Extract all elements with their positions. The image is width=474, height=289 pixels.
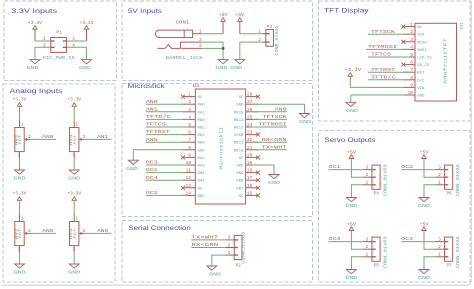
ground (P1 right) [79, 60, 92, 72]
wire +3.3V to RV1 pin1 [19, 106, 21, 120]
connector P3 CONN_01X02 [258, 24, 280, 55]
net label OC1 (Microstick pin11) [146, 167, 188, 173]
ground (P2) [207, 266, 221, 278]
net label TFTCS (Microstick pin5) [146, 122, 188, 128]
ground (jack) [215, 60, 228, 72]
svg-text:RA1: RA1 [198, 111, 206, 115]
svg-text:PIC_PWR_IN: PIC_PWR_IN [43, 55, 75, 61]
svg-text:GND: GND [299, 119, 311, 125]
svg-text:GND: GND [346, 108, 358, 114]
svg-text:20: 20 [247, 152, 253, 158]
svg-text:P4: P4 [374, 192, 380, 196]
ground (RV4) [68, 264, 80, 276]
power +5V (P3) [235, 12, 244, 34]
svg-text:NC: NC [239, 195, 244, 199]
net label AN0 (Microstick pin2) [146, 99, 188, 105]
section frame Analog Inputs box [3, 84, 115, 282]
svg-text:1: 1 [366, 252, 369, 258]
IC U1 AdafruitTFT [403, 22, 463, 101]
svg-text:1: 1 [21, 216, 24, 222]
svg-text:CONN_01X03: CONN_01X03 [456, 236, 461, 268]
svg-text:GND: GND [209, 272, 221, 278]
net label TFTD/C (Microstick pin4) [146, 114, 188, 120]
net label TFTSCK (Microstick pin25) [252, 114, 287, 120]
junction jack GND [222, 47, 225, 50]
svg-text:4: 4 [410, 44, 413, 50]
wire TFT GND [351, 95, 404, 102]
svg-text:BL: BL [417, 26, 422, 30]
wire P3 pin2 to GND [240, 42, 262, 60]
svg-text:27: 27 [247, 99, 253, 105]
svg-text:RB2: RB2 [198, 134, 206, 138]
svg-text:GND: GND [268, 180, 280, 186]
ground (P7) [418, 270, 430, 282]
ground (Microstick pin19) [268, 175, 280, 187]
wire P1 pin1 to +3.3V [35, 40, 51, 42]
svg-text:LCD_CS: LCD_CS [417, 57, 432, 61]
wire +5V to P5 pin2 [351, 231, 363, 249]
svg-text:RB5: RB5 [198, 195, 206, 199]
connector CON1 BARREL_JACK [155, 20, 203, 61]
svg-text:+3.3V: +3.3V [344, 67, 361, 73]
net label AN5 (RV2 wiper) [30, 228, 57, 234]
no-connect Microstick pin1 [181, 95, 185, 99]
wire jack pin1 to +5V [202, 33, 224, 35]
svg-text:VUSB: VUSB [234, 134, 244, 138]
svg-text:RA0: RA0 [198, 104, 206, 108]
svg-text:9: 9 [188, 152, 191, 158]
svg-text:Serial Connection: Serial Connection [128, 225, 191, 232]
wire RV1 pin3 to GND [19, 159, 21, 170]
svg-text:GND: GND [418, 275, 430, 281]
no-connect Microstick pin16 [256, 186, 260, 190]
net label OC3 (P5 pin3) [329, 236, 363, 242]
svg-text:2: 2 [438, 172, 441, 178]
svg-text:NC: NC [239, 157, 244, 161]
wire jack pin2 to GND rail [202, 47, 224, 49]
svg-text:GND: GND [27, 65, 39, 71]
svg-text:CONN_01X03: CONN_01X03 [384, 164, 389, 196]
power +5V (P4) [347, 149, 356, 158]
svg-text:RB3: RB3 [198, 142, 206, 146]
svg-text:9: 9 [410, 82, 413, 88]
svg-text:2: 2 [366, 172, 369, 178]
svg-text:1: 1 [410, 22, 413, 28]
svg-text:RA2: RA2 [198, 157, 206, 161]
svg-text:GND: GND [230, 65, 242, 71]
power +5V (P5) [347, 221, 356, 230]
svg-text:GND: GND [126, 166, 138, 172]
svg-text:RB1: RB1 [198, 127, 206, 131]
section frame Serial Connection box [122, 221, 313, 283]
wire RV3 pin3 to GND [73, 159, 75, 170]
power +3.3V (P1 left) [28, 20, 42, 41]
svg-text:5V Inputs: 5V Inputs [128, 8, 163, 15]
svg-text:1: 1 [438, 252, 441, 258]
net label TX>WHT (P2 pin3) [191, 235, 224, 241]
svg-text:28: 28 [247, 92, 253, 98]
svg-text:3: 3 [366, 164, 369, 170]
section frame TFT Display box [319, 1, 471, 121]
svg-text:NC: NC [239, 96, 244, 100]
potentiometer RV3 [70, 120, 86, 159]
svg-text:RA4: RA4 [198, 180, 206, 184]
no-connect Microstick pin20 [256, 155, 260, 159]
svg-text:7: 7 [410, 67, 413, 73]
svg-text:3: 3 [438, 236, 441, 242]
svg-text:1: 1 [258, 29, 261, 35]
svg-text:CONN_01X03: CONN_01X03 [456, 164, 461, 196]
wire RV2 pin3 to GND [19, 253, 21, 264]
svg-text:MOSI: MOSI [417, 49, 427, 53]
svg-text:U1: U1 [193, 83, 200, 89]
no-connect TFT pin6 SD_CS [401, 63, 405, 67]
svg-text:1: 1 [228, 250, 231, 256]
svg-text:18: 18 [247, 168, 253, 174]
section frame 3.3V Inputs box [4, 1, 117, 81]
svg-text:1: 1 [75, 216, 78, 222]
wire P1 pin2 to +3.3V [67, 40, 87, 42]
svg-text:CONN_01X03: CONN_01X03 [241, 231, 246, 263]
ground (P3) [230, 60, 245, 72]
power +5V (P7) [420, 221, 429, 230]
svg-text:GND: GND [236, 104, 244, 108]
ground (Microstick pin27) [299, 114, 311, 126]
svg-text:3: 3 [72, 247, 75, 253]
svg-text:GND: GND [79, 65, 91, 71]
svg-text:RST: RST [417, 72, 425, 76]
svg-text:5: 5 [188, 122, 191, 128]
svg-text:CONN_01X02: CONN_01X02 [275, 25, 280, 55]
wire P1 pin4 to GND [67, 47, 87, 59]
svg-text:POT: POT [19, 134, 23, 144]
ground (P5) [345, 270, 357, 282]
wire jack pin3 to GND rail [202, 42, 224, 60]
no-connect Microstick pin23 [256, 133, 260, 137]
net label TFTCS (TFT pin5) [368, 52, 409, 58]
svg-text:+3.3V: +3.3V [67, 191, 81, 197]
svg-text:RB9: RB9 [236, 172, 244, 176]
svg-text:10: 10 [407, 90, 413, 96]
svg-text:25: 25 [247, 114, 253, 120]
wire TFT VIN to +3.3V [350, 77, 403, 88]
section frame Microstick box [122, 83, 313, 217]
svg-text:2: 2 [258, 37, 261, 43]
wire +3.3V to RV3 pin1 [73, 106, 75, 120]
wire P5 pin1 to GND [351, 257, 363, 270]
svg-text:GND: GND [345, 275, 357, 281]
potentiometer RV2 [15, 214, 31, 253]
wire +5V to P6 pin2 [424, 159, 436, 177]
wire +5V to P7 pin2 [424, 231, 436, 249]
svg-text:6: 6 [188, 130, 191, 136]
svg-text:GND: GND [215, 65, 227, 71]
svg-text:AdafruitTFT: AdafruitTFT [444, 37, 449, 84]
net label OC4 (P7 pin3) [401, 236, 435, 242]
svg-text:2: 2 [410, 29, 413, 35]
svg-text:POT: POT [74, 228, 78, 238]
svg-text:MISO: MISO [417, 41, 427, 45]
wire P1 pin3 to GND [35, 47, 51, 59]
connector P4 CONN_01X03 [363, 164, 389, 196]
svg-text:3: 3 [18, 247, 21, 253]
svg-text:NC: NC [198, 96, 203, 100]
power +3.3V (RV1) [13, 97, 27, 107]
svg-text:3: 3 [228, 235, 231, 241]
svg-text:1: 1 [366, 180, 369, 186]
net label OC2 (P6 pin3) [401, 164, 435, 170]
no-connect TFT pin1 BL [401, 25, 405, 29]
net label RX<GRN (Microstick pin22) [252, 137, 287, 143]
svg-text:26: 26 [247, 107, 253, 113]
svg-text:GND: GND [236, 165, 244, 169]
svg-text:RB11: RB11 [234, 142, 244, 146]
IC U1 MicrostickII [183, 83, 258, 204]
no-connect Microstick pin9 [181, 155, 185, 159]
svg-text:GND: GND [345, 203, 357, 209]
svg-text:5: 5 [410, 52, 413, 58]
svg-text:RB7: RB7 [236, 187, 244, 191]
connector P5 CONN_01X03 [363, 236, 389, 268]
net label AN9 (RV4 wiper) [84, 228, 111, 234]
svg-text:1: 1 [188, 92, 191, 98]
svg-text:SD_CS: SD_CS [417, 64, 430, 68]
svg-text:19: 19 [247, 160, 253, 166]
svg-text:GND: GND [418, 203, 430, 209]
svg-text:P1: P1 [56, 30, 62, 36]
net label AN1 (Microstick pin3) [146, 106, 188, 112]
svg-text:8: 8 [188, 145, 191, 151]
power +5V (jack) [219, 12, 228, 34]
svg-text:RB14: RB14 [234, 119, 244, 123]
no-connect Microstick pin13 [181, 186, 185, 190]
svg-text:RB10: RB10 [234, 149, 244, 153]
svg-text:SCK: SCK [417, 34, 425, 38]
svg-text:6: 6 [410, 60, 413, 66]
svg-text:15: 15 [247, 190, 253, 196]
net label AN0 (RV1 wiper) [30, 134, 57, 140]
power +5V (P6) [420, 149, 429, 158]
net label TFTMOSI (TFT pin4) [366, 44, 409, 50]
potentiometer RV1 [15, 120, 31, 159]
net label TFTRST (Microstick pin6) [146, 129, 188, 135]
svg-text:P6: P6 [447, 192, 453, 196]
net label TFTMOSI (Microstick pin24) [252, 122, 287, 128]
svg-text:P3: P3 [267, 24, 273, 30]
svg-text:24: 24 [247, 122, 253, 128]
wire P7 pin1 to GND [424, 257, 436, 270]
svg-text:POT: POT [19, 228, 23, 238]
svg-text:+3.3V: +3.3V [13, 97, 27, 103]
net label OC3 (Microstick pin10) [146, 160, 188, 166]
svg-text:4: 4 [188, 114, 191, 120]
svg-text:GND: GND [68, 176, 80, 182]
svg-text:8: 8 [410, 75, 413, 81]
no-connect Microstick pin15 [256, 193, 260, 197]
no-connect Microstick pin18 [256, 171, 260, 175]
svg-text:2: 2 [188, 99, 191, 105]
svg-text:NC: NC [198, 187, 203, 191]
svg-text:TFT Display: TFT Display [324, 8, 369, 15]
ground (P1 left) [27, 60, 41, 72]
power +3.3V (TFT VIN) [344, 67, 361, 76]
svg-text:3: 3 [72, 153, 75, 159]
ground (RV1) [14, 170, 26, 182]
wire Microstick pin8 GND [133, 150, 188, 160]
ground (TFT) [346, 102, 358, 114]
net label TX>WHT (Microstick pin21) [252, 144, 287, 150]
ground (RV2) [14, 264, 26, 276]
wire P4 pin1 to GND [351, 185, 363, 198]
svg-text:GND: GND [14, 176, 26, 182]
svg-text:RB13: RB13 [234, 127, 244, 131]
net label TFTSCK (TFT pin2) [368, 29, 409, 35]
svg-text:1: 1 [43, 36, 46, 42]
svg-text:P2: P2 [236, 264, 242, 268]
svg-text:MicrostickII: MicrostickII [219, 126, 224, 169]
svg-text:22: 22 [247, 137, 253, 143]
svg-text:3: 3 [410, 37, 413, 43]
net label OC1 (P4 pin3) [329, 164, 363, 170]
svg-text:Microstick: Microstick [128, 83, 166, 90]
svg-text:3: 3 [438, 164, 441, 170]
svg-text:3: 3 [188, 107, 191, 113]
svg-text:GND: GND [198, 149, 206, 153]
net label TFTRST (TFT pin7) [368, 67, 409, 73]
section frame Servo Outputs box [319, 131, 471, 283]
power +3.3V (P1 right) [80, 20, 94, 41]
svg-text:VIN: VIN [417, 87, 425, 91]
power +3.3V (RV2) [13, 191, 27, 201]
svg-text:CONN_01X03: CONN_01X03 [384, 236, 389, 268]
svg-text:1: 1 [21, 122, 24, 128]
net label OC4 (Microstick pin12) [146, 175, 188, 181]
svg-text:21: 21 [247, 145, 253, 151]
svg-text:GND: GND [68, 270, 80, 276]
wire Microstick pin27 GND [252, 104, 305, 113]
wire RV4 pin3 to GND [73, 253, 75, 264]
svg-text:23: 23 [247, 130, 253, 136]
svg-text:2: 2 [438, 244, 441, 250]
no-connect Microstick pin28 [256, 95, 260, 99]
svg-text:+3.3V: +3.3V [67, 97, 81, 103]
ground (P4) [345, 198, 357, 210]
net label OC2 (Microstick pin14) [146, 190, 188, 196]
svg-text:13: 13 [185, 183, 191, 189]
ground (Microstick pin8) [126, 160, 138, 172]
svg-text:GND: GND [14, 270, 26, 276]
svg-text:RB0: RB0 [198, 119, 206, 123]
svg-text:P5: P5 [374, 264, 380, 268]
svg-text:P7: P7 [447, 264, 453, 268]
power +3.3V (RV3) [67, 97, 81, 107]
connector P1 PIC_PWR_IN [43, 30, 76, 62]
svg-text:BARREL_JACK: BARREL_JACK [166, 55, 203, 61]
svg-text:+3.3V: +3.3V [13, 191, 27, 197]
no-connect TFT pin3 MISO [401, 40, 405, 44]
svg-text:17: 17 [247, 175, 253, 181]
svg-text:7: 7 [188, 137, 191, 143]
wire P2 pin1 to GND [212, 255, 225, 266]
svg-text:16: 16 [247, 183, 253, 189]
wire P3 pin1 to +5V [240, 33, 262, 35]
svg-text:RB15: RB15 [234, 111, 244, 115]
wire +3.3V to RV2 pin1 [19, 200, 21, 214]
potentiometer RV4 [70, 214, 86, 253]
net label AN9 (Microstick pin26) [252, 106, 287, 112]
power +3.3V (RV4) [67, 191, 81, 201]
ground (RV3) [68, 170, 80, 182]
ground (P6) [418, 198, 430, 210]
connector P2 CONN_01X03 [225, 231, 247, 268]
svg-text:RB4: RB4 [198, 172, 206, 176]
svg-text:Analog Inputs: Analog Inputs [10, 88, 64, 95]
connector P6 CONN_01X03 [436, 164, 462, 196]
wire +3.3V to RV4 pin1 [73, 200, 75, 214]
svg-text:3: 3 [43, 43, 46, 49]
wire +5V to P4 pin2 [351, 159, 363, 177]
net label RX<GRN (P2 pin2) [191, 242, 224, 248]
section frame 5V Inputs box [122, 1, 313, 81]
wire P6 pin1 to GND [424, 185, 436, 198]
svg-text:1: 1 [75, 122, 78, 128]
svg-text:D/C: D/C [417, 78, 425, 83]
svg-text:U1: U1 [458, 23, 463, 30]
net label AN1 (RV3 wiper) [84, 134, 111, 140]
svg-text:3: 3 [18, 153, 21, 159]
svg-text:POT: POT [74, 134, 78, 144]
svg-text:2: 2 [228, 242, 231, 248]
connector P7 CONN_01X03 [436, 236, 462, 268]
svg-text:GND: GND [417, 95, 425, 99]
net label AN5 (Microstick pin7) [146, 137, 188, 143]
svg-text:Servo Outputs: Servo Outputs [324, 137, 376, 144]
wire Microstick pin19 GND [252, 165, 274, 175]
svg-text:2: 2 [366, 244, 369, 250]
svg-text:RB8: RB8 [236, 180, 244, 184]
svg-text:CON1: CON1 [176, 20, 190, 26]
svg-text:3.3V Inputs: 3.3V Inputs [11, 8, 58, 15]
svg-text:RA3: RA3 [198, 165, 206, 169]
svg-text:3: 3 [366, 236, 369, 242]
no-connect Microstick pin17 [256, 178, 260, 182]
net label TFTD/C (TFT pin8) [368, 74, 409, 80]
svg-text:1: 1 [438, 180, 441, 186]
